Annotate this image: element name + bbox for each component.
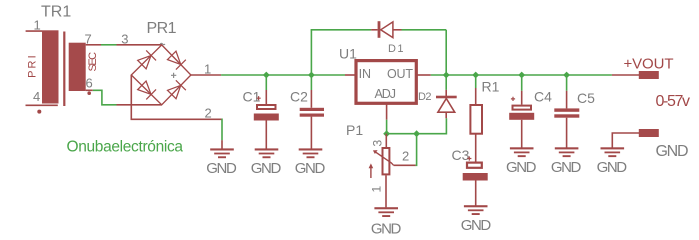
transformer TR1 core: [63, 32, 65, 107]
svg-text:2: 2: [402, 149, 409, 164]
wire: rail to R1: [475, 75, 477, 88]
svg-text:GND: GND: [597, 159, 628, 176]
wire: P1 pin1 stub: [385, 175, 387, 207]
svg-text:SEC: SEC: [87, 52, 99, 72]
svg-text:C5: C5: [577, 90, 595, 106]
capacitor C1 (polarized): [254, 105, 279, 149]
svg-text:+VOUT: +VOUT: [624, 56, 674, 73]
wire: U1 ADJ pin: [386, 103, 388, 120]
transformer TR1 secondary winding: [69, 43, 101, 91]
svg-text:GND: GND: [506, 159, 537, 176]
wire: C2 pin stub top: [310, 90, 312, 108]
capacitor C3 (polarized): [463, 163, 488, 206]
svg-text:1: 1: [204, 61, 211, 76]
svg-text:TR1: TR1: [41, 4, 71, 21]
junction (rail / C4): [518, 72, 525, 79]
connector pad +VOUT: [639, 71, 659, 79]
svg-text:C3: C3: [452, 147, 470, 163]
wire: D1 loop top left: [311, 29, 372, 31]
capacitor C4 (polarized): [509, 106, 534, 148]
wire: rail to C1: [265, 75, 267, 90]
junction (ADJ rail / P1 wiper): [413, 130, 420, 137]
svg-text:IN: IN: [359, 67, 371, 81]
potentiometer P1 adjust arrow: [369, 163, 374, 178]
wire: R1 to C3: [475, 134, 477, 162]
bridge PR1 diode (top-right edge): [167, 50, 186, 69]
svg-text:R1: R1: [482, 79, 500, 95]
svg-text:GND: GND: [371, 220, 402, 237]
wire: ADJ pin to ADJ rail: [386, 120, 388, 134]
junction (rail / C1): [263, 72, 270, 79]
wire: U1 IN pin: [345, 74, 356, 76]
svg-text:C2: C2: [290, 89, 308, 105]
capacitor C5: [554, 108, 579, 147]
junction (rail / C2 / D1 loop): [308, 72, 315, 79]
svg-text:PRI: PRI: [26, 55, 38, 78]
svg-text:3: 3: [121, 31, 128, 46]
ground symbol GND (C2): [295, 148, 326, 177]
wire: C4 pin stub top: [521, 91, 523, 105]
wire: D1 loop left vertical: [310, 30, 312, 75]
ground symbol GND (C4): [506, 147, 537, 176]
svg-text:Onubaelectrónica: Onubaelectrónica: [67, 139, 184, 156]
svg-text:D2: D2: [418, 91, 432, 103]
wire: +VOUT pad pin: [612, 74, 639, 76]
wire: P1 wiper pin stub: [394, 164, 416, 166]
ground symbol GND (C5): [551, 147, 582, 176]
wire: U1 OUT pin: [416, 74, 431, 76]
plus mark C3: [467, 156, 471, 160]
wire: rail to C4: [521, 75, 523, 91]
wire: D1 loop top right: [402, 29, 447, 31]
svg-text:U1: U1: [339, 46, 357, 62]
svg-text:C1: C1: [243, 89, 261, 105]
bridge PR1 diode (bottom-right edge): [167, 80, 186, 99]
svg-text:1: 1: [370, 186, 384, 193]
ground symbol GND (P1): [371, 207, 402, 237]
voltage regulator U1 box: [356, 61, 416, 104]
diode D1: [371, 21, 401, 38]
svg-text:3: 3: [370, 140, 384, 147]
plus mark C1: [257, 96, 261, 100]
wire: rail to D2: [445, 75, 447, 90]
svg-text:2: 2: [205, 105, 212, 120]
potentiometer P1 body: [383, 148, 390, 174]
potentiometer P1 wiper arrow: [373, 150, 394, 165]
wire: main rail OUT to +VOUT: [431, 74, 612, 76]
junction (rail / D1 / D2): [443, 72, 450, 79]
diode D2: [436, 90, 457, 118]
junction (rail / C5): [563, 72, 570, 79]
wire: GND pad pin: [612, 133, 639, 148]
svg-text:6: 6: [86, 75, 93, 90]
wire: rail to C5: [566, 75, 568, 91]
wire: C1 pin stub top: [265, 90, 267, 104]
junction (rail / R1): [472, 72, 479, 79]
junction (ADJ rail / P1 pin3): [383, 130, 390, 137]
wire: PR1 pin2 to GND: [221, 119, 224, 140]
wire: main rail PR1 pin1 to U1 IN: [221, 74, 345, 76]
wire: GND stub (PR1 pin2): [221, 140, 223, 149]
svg-text:C4: C4: [534, 89, 552, 105]
svg-text:7: 7: [85, 31, 92, 46]
wire: P1 pin3 stub: [385, 134, 387, 148]
capacitor C2: [300, 108, 324, 149]
svg-text:ADJ: ADJ: [375, 87, 397, 101]
bridge PR1 diode (top-left edge): [137, 50, 156, 69]
bridge PR1 plus mark: [171, 73, 176, 78]
svg-text:GND: GND: [461, 217, 492, 234]
ground symbol GND (C1): [251, 148, 282, 177]
ground symbol GND (PR1 pin2): [206, 148, 237, 177]
svg-text:GND: GND: [656, 143, 689, 160]
connector pad GND: [639, 129, 659, 137]
ground symbol GND (C3): [461, 205, 492, 234]
svg-text:4: 4: [33, 89, 40, 104]
svg-text:GND: GND: [251, 160, 282, 177]
bridge PR1 diode (bottom-left edge): [137, 80, 156, 99]
wire: C5 pin stub top: [566, 91, 568, 109]
wire: D2 to ADJ rail corner: [387, 118, 447, 133]
wire: TR1 pin6 to PR1 AC bottom: [93, 90, 117, 105]
plus mark C4: [511, 97, 515, 101]
transformer TR1 polarity dot (secondary): [87, 91, 91, 95]
bridge PR1 minus mark: [160, 43, 165, 44]
svg-text:GND: GND: [295, 160, 326, 177]
bridge rectifier PR1 body: [117, 45, 222, 120]
wire: P1 wiper to ADJ rail: [416, 134, 417, 166]
resistor R1: [470, 105, 482, 134]
wire: R1 pin stub top: [475, 88, 477, 105]
wire: TR1 pin7 to PR1 pin3: [101, 44, 117, 46]
svg-text:0-57v: 0-57v: [656, 93, 691, 110]
transformer TR1 polarity dot (primary): [37, 110, 41, 114]
svg-text:PR1: PR1: [147, 20, 177, 37]
ground symbol GND (output): [597, 147, 628, 176]
svg-text:P1: P1: [346, 122, 363, 138]
svg-text:GND: GND: [206, 160, 237, 177]
transformer TR1 primary winding: [26, 30, 59, 105]
svg-text:D1: D1: [388, 43, 404, 55]
svg-text:GND: GND: [551, 159, 582, 176]
wire: rail to C2: [310, 75, 312, 90]
wire: D1 loop right vertical: [445, 30, 447, 75]
svg-text:OUT: OUT: [387, 67, 413, 81]
svg-text:1: 1: [34, 17, 41, 32]
